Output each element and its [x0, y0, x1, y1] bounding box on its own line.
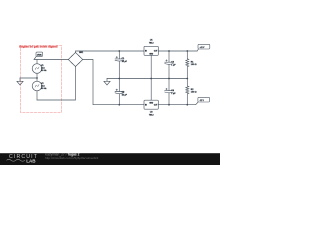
- regulator U2 (7912): [144, 79, 158, 110]
- mid ground wire: [107, 78, 187, 80]
- svg-text:OUT: OUT: [154, 105, 158, 107]
- net flag -12: [196, 97, 210, 104]
- wire junction to ground: [20, 77, 37, 79]
- node: C3/C4 mid: [168, 78, 170, 80]
- svg-text:http://circuitlab.com/c/5y6p8a: http://circuitlab.com/c/5y6p8arvshav2k3: [45, 156, 99, 160]
- svg-text:OUT: OUT: [154, 51, 158, 53]
- capacitor C4: [165, 79, 174, 105]
- svg-text:60 Hz: 60 Hz: [41, 88, 46, 90]
- node: C1 bottom / gnd: [118, 78, 120, 80]
- node: R1 top: [186, 50, 188, 52]
- net flag +12: [197, 44, 210, 51]
- footer bar: [0, 153, 220, 166]
- voltage source V2: [32, 78, 42, 100]
- svg-text:LAB: LAB: [26, 159, 36, 164]
- ground (mid rail): [104, 79, 110, 86]
- wire bridge top (+) to U1 IN: [76, 50, 145, 52]
- net flag IN (at V1 top node): [34, 52, 43, 59]
- node: C4 bottom: [168, 104, 170, 106]
- wire U1 OUT to +12 flag: [158, 50, 197, 52]
- annotation box (red dashed, do-not-change region): [21, 46, 62, 113]
- svg-text:Bagian ini gak boleh diganti: Bagian ini gak boleh diganti: [19, 44, 58, 48]
- ground (left, center tap): [17, 78, 23, 85]
- circuitlab logo: [7, 154, 39, 163]
- wire V1 top node to bridge left tip: [34, 59, 68, 61]
- svg-text:1 µF: 1 µF: [171, 93, 176, 95]
- wire bridge right (-) down to bottom rail: [83, 60, 144, 105]
- wire U2 OUT to -12 flag: [158, 104, 195, 106]
- node: C1 top: [118, 50, 120, 52]
- svg-text:10 µF: 10 µF: [122, 94, 128, 96]
- regulator U1 (7812): [144, 46, 158, 78]
- node: R2 bottom: [186, 104, 188, 106]
- junction dots: [118, 50, 188, 106]
- labels: [19, 39, 205, 116]
- node: C2 bottom: [118, 104, 120, 106]
- capacitor C3: [165, 51, 174, 79]
- node: R mid: [186, 78, 188, 80]
- capacitor C1: [115, 51, 124, 79]
- svg-text:10 µF: 10 µF: [122, 61, 128, 63]
- wire V2 bottom to bridge bottom: [37, 67, 76, 101]
- svg-text:100 Ω: 100 Ω: [191, 64, 197, 66]
- svg-text:100 Ω: 100 Ω: [191, 92, 197, 94]
- capacitor C2: [115, 79, 124, 105]
- node A (center tap junction): [36, 77, 38, 79]
- resistor R2: [186, 79, 189, 105]
- node: C3 top: [168, 50, 170, 52]
- bridge rectifier BR1: [68, 51, 82, 67]
- svg-text:60 Hz: 60 Hz: [41, 70, 46, 72]
- resistor R1: [186, 51, 189, 79]
- node: regulators gnd: [150, 78, 152, 80]
- svg-text:1 µF: 1 µF: [171, 64, 176, 66]
- voltage source V1: [32, 60, 42, 79]
- svg-text:+12 V: +12 V: [200, 47, 206, 49]
